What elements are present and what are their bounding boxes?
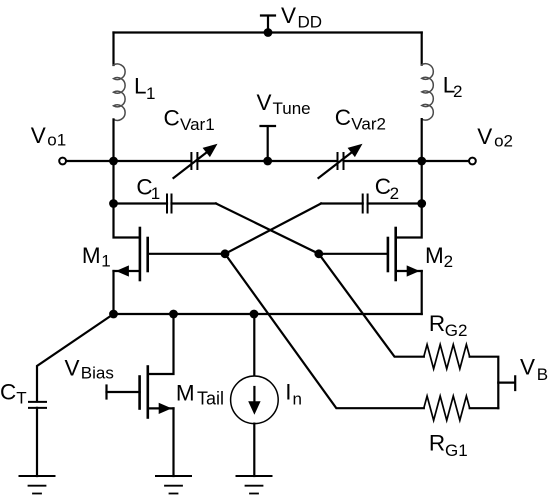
capacitor C2 plates — [363, 195, 368, 213]
inductor L2 — [422, 64, 434, 120]
wire C2 to cross — [321, 202, 363, 204]
varactor CVar2 plates — [338, 153, 344, 169]
node dot M1 gate — [221, 249, 230, 258]
wire tank rail mid segment — [197, 160, 337, 162]
wire MTail source to ground — [172, 408, 174, 476]
ground CT — [20, 475, 55, 477]
terminal VB tap — [498, 376, 515, 390]
transistor M1 source wire with arrow — [114, 270, 140, 272]
transistor M2 drain wire — [396, 204, 422, 238]
svg-text:R: R — [429, 431, 445, 456]
wire CT to ground — [36, 408, 38, 476]
svg-text:V: V — [31, 123, 46, 148]
terminal Vo2 wire — [422, 160, 469, 162]
node dot Vo2 — [417, 157, 426, 166]
wire left stem top — [112, 33, 114, 66]
node dot Vo1 — [109, 157, 118, 166]
resistor RG1 — [424, 396, 470, 420]
svg-text:V: V — [477, 124, 492, 149]
svg-text:1: 1 — [101, 252, 110, 271]
svg-text:R: R — [429, 311, 445, 336]
wire VBias to MTail gate — [107, 391, 140, 393]
node dot rail left — [109, 310, 118, 319]
wire M2 gate to RG2 diagonal — [319, 254, 424, 357]
transistor M2 gate plate — [387, 238, 390, 271]
svg-text:Bias: Bias — [81, 363, 114, 382]
node Vo2 open circle — [469, 158, 476, 165]
wire RG2 to VB corner — [470, 357, 499, 409]
current source In circle — [231, 376, 279, 424]
svg-text:Var1: Var1 — [180, 115, 215, 134]
svg-text:V: V — [520, 355, 535, 380]
wire M1 source down — [112, 271, 114, 314]
svg-text:o1: o1 — [47, 131, 66, 150]
svg-text:B: B — [537, 365, 548, 384]
node dot C1 — [109, 199, 118, 208]
wire RG1 right — [470, 407, 499, 409]
svg-text:1: 1 — [146, 84, 155, 103]
svg-text:M: M — [82, 243, 101, 268]
svg-text:2: 2 — [444, 252, 453, 271]
node dot rail MTail — [169, 310, 178, 319]
transistor MTail drain wire — [148, 314, 174, 374]
svg-text:G2: G2 — [445, 321, 468, 340]
svg-text:2: 2 — [390, 184, 399, 203]
svg-text:C: C — [335, 105, 351, 130]
svg-text:I: I — [285, 380, 291, 405]
transistor M2 gate wire — [319, 253, 388, 255]
ground In — [237, 475, 272, 477]
svg-text:o2: o2 — [494, 132, 513, 151]
transistor M1 gate wire — [148, 253, 225, 255]
wire left node to C1 row — [112, 161, 114, 204]
wire top rail VDD — [114, 31, 422, 33]
varactor CVar2 arrow — [319, 151, 355, 179]
svg-text:V: V — [281, 3, 296, 28]
ground MTail — [156, 475, 191, 477]
varactor CVar1 arrow — [174, 151, 210, 179]
wire right node to C2 row — [421, 161, 423, 204]
wire C2 row right — [368, 202, 422, 204]
node dot C2 — [417, 199, 426, 208]
wire C1 to cross — [172, 202, 217, 204]
node dot rail In — [250, 310, 259, 319]
node dot M2 gate — [314, 249, 323, 258]
node Vo1 open circle — [59, 158, 66, 165]
transistor M1 gate plate — [146, 238, 149, 271]
transistor MTail channel bar — [147, 367, 150, 418]
svg-text:M: M — [425, 243, 444, 268]
transistor MTail source wire with arrow — [148, 407, 174, 409]
transistor MTail gate plate — [138, 377, 141, 409]
svg-text:Var2: Var2 — [351, 115, 386, 134]
wire right stem top — [421, 33, 423, 65]
transistor M2 source wire with arrow — [396, 270, 422, 272]
wire M1 gate to RG1 diagonal — [225, 254, 424, 408]
wire tank rail left segment — [114, 160, 192, 162]
svg-text:n: n — [293, 389, 302, 408]
transistor M2 channel bar — [394, 228, 397, 280]
wire common source rail — [114, 313, 422, 315]
wire cross diagonal C2 to M1 gate — [225, 204, 321, 254]
svg-text:C: C — [0, 379, 16, 404]
wire In to ground — [253, 424, 255, 476]
capacitor CT plates — [29, 402, 46, 408]
wire tank rail right segment — [344, 160, 422, 162]
svg-text:T: T — [16, 389, 26, 408]
varactor CVar1 plates — [191, 153, 197, 169]
wire rail to In source — [253, 314, 255, 376]
wire M2 source down — [421, 271, 423, 314]
capacitor C1 plates — [167, 195, 172, 213]
svg-text:Tune: Tune — [273, 99, 311, 118]
wire rail to CT diagonal — [37, 314, 114, 402]
wire C1 row left — [114, 202, 168, 204]
transistor M1 channel bar — [139, 228, 142, 280]
current source In arrow — [253, 387, 255, 401]
svg-text:V: V — [65, 355, 80, 380]
svg-text:L: L — [134, 73, 147, 98]
inductor L1 — [114, 64, 126, 120]
svg-text:2: 2 — [453, 82, 462, 101]
svg-text:M: M — [176, 381, 195, 406]
svg-text:G1: G1 — [445, 441, 468, 460]
svg-text:DD: DD — [298, 12, 323, 31]
terminal Vo1 wire — [66, 160, 113, 162]
svg-text:C: C — [164, 106, 180, 131]
supply VTune symbol — [261, 126, 276, 161]
node dot VTune — [263, 157, 272, 166]
supply VDD symbol — [261, 16, 275, 33]
wire cross diagonal C1 to M2 gate — [216, 204, 319, 254]
svg-text:1: 1 — [151, 184, 160, 203]
wire L2 to Vo2 node — [421, 119, 423, 161]
transistor M1 drain wire — [114, 204, 140, 238]
resistor RG2 — [424, 345, 470, 369]
terminal VBias bar — [105, 386, 107, 399]
node dot VDD — [264, 28, 273, 37]
svg-text:V: V — [257, 90, 272, 115]
svg-text:Tail: Tail — [197, 388, 224, 408]
wire L1 to Vo1 node — [112, 119, 114, 161]
